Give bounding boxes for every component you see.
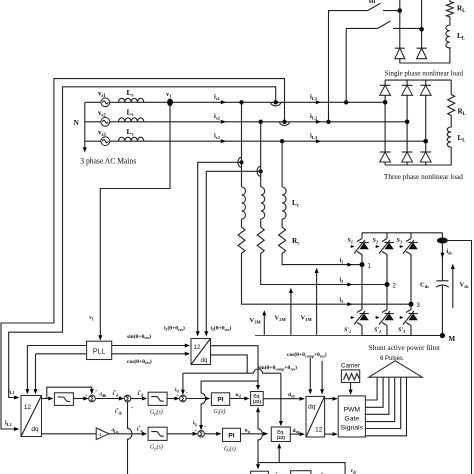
carrier block xyxy=(341,362,360,382)
svg-text:Gp(s): Gp(s) xyxy=(150,444,163,451)
wire 1ph bridge leg A xyxy=(398,0,403,48)
junction line2-branch2 xyxy=(259,120,263,124)
arrow idc xyxy=(440,249,452,258)
label 3 phase AC Mains xyxy=(80,155,136,165)
op-block PLL xyxy=(87,341,112,359)
inductor LL 3ph xyxy=(447,118,465,147)
svg-text:i3: i3 xyxy=(340,297,344,304)
svg-text:Signals: Signals xyxy=(341,425,364,432)
inductor LL 1ph xyxy=(446,19,465,48)
svg-text:Eq.: Eq. xyxy=(253,394,260,399)
svg-text:iL1: iL1 xyxy=(8,389,15,396)
svg-text:Shunt active power filter: Shunt active power filter xyxy=(369,344,441,352)
node 3 xyxy=(409,302,421,309)
label -idh xyxy=(99,392,107,398)
wire i2 measure xyxy=(204,171,260,336)
transistor S2 xyxy=(373,238,394,255)
block Eq22 xyxy=(251,392,264,406)
inductor Lc2 xyxy=(261,187,265,219)
arrow Vdc xyxy=(451,264,469,308)
inductor Lc3 xyxy=(282,187,300,219)
wire dq12 to PWM d xyxy=(325,397,338,401)
svg-text:(22): (22) xyxy=(253,399,262,404)
diode D5 xyxy=(420,85,431,95)
svg-text:Three phase nonlinear load: Three phase nonlinear load xyxy=(384,173,463,181)
label single phase nonlinear load xyxy=(385,70,464,78)
svg-text:S1: S1 xyxy=(348,238,353,245)
svg-text:S′3: S′3 xyxy=(398,328,405,335)
wire 3ph bridge column 2 xyxy=(405,80,410,165)
wire SAPF column 1 xyxy=(361,233,363,336)
summer 3 xyxy=(176,393,186,402)
filter block Gp1 xyxy=(148,392,167,416)
summer 1 xyxy=(85,389,98,402)
svg-text:+: + xyxy=(194,429,197,435)
filter block LPF xyxy=(54,393,73,406)
summer 2 xyxy=(124,395,131,402)
wire Eq23 to dq12 xyxy=(290,428,305,436)
svg-text:12: 12 xyxy=(24,404,32,411)
wire sin comp vertical xyxy=(320,361,324,395)
source vs3 xyxy=(98,129,110,146)
filter block Gp2 xyxy=(148,427,167,451)
wire cos comp vertical xyxy=(308,358,312,395)
svg-text:6 Pulses: 6 Pulses xyxy=(380,355,403,362)
wire v1 sense to PLL xyxy=(89,102,170,340)
transform block dq/12 xyxy=(306,396,325,437)
wire pulse 2 xyxy=(365,377,383,407)
arrow V3M xyxy=(250,310,267,335)
svg-text:PLL: PLL xyxy=(93,349,106,356)
wire pulse 6 xyxy=(365,377,406,436)
switch S2 xyxy=(378,21,422,28)
wire phase line 1 xyxy=(85,101,385,103)
pulse fan roof xyxy=(369,355,423,377)
svg-text:+: + xyxy=(275,471,278,474)
wire phase line 3 xyxy=(85,140,426,142)
wire 1ph bridge leg B xyxy=(419,0,424,48)
transistor S1 xyxy=(348,238,369,255)
wire id out to Eq22 xyxy=(211,346,261,391)
wire phase line 2 xyxy=(85,121,407,123)
arrow i1 xyxy=(340,258,353,267)
svg-text:Gp(s): Gp(s) xyxy=(150,409,163,416)
wire dq output q row xyxy=(42,433,97,435)
wire 3ph bridge column 3 xyxy=(423,80,428,165)
svg-text:-: - xyxy=(204,425,206,431)
diode D7 xyxy=(402,152,413,162)
wire pulse 1 xyxy=(365,377,377,400)
arrow V1M xyxy=(301,268,319,335)
wire 3ph bridge column 1 xyxy=(383,80,388,165)
wire Eq23 bottom vdc xyxy=(277,443,281,462)
wire summer1 to summer2 xyxy=(95,390,124,401)
svg-text:-1: -1 xyxy=(98,432,103,437)
svg-text:Gate: Gate xyxy=(344,416,359,423)
switch S1 xyxy=(368,3,400,10)
transistor S3 xyxy=(397,238,418,255)
wire Gp1 to summer3 xyxy=(167,397,180,401)
svg-text:12: 12 xyxy=(315,427,323,434)
svg-text:+: + xyxy=(176,393,179,399)
svg-text:S′2: S′2 xyxy=(374,328,381,335)
svg-text:Eq.: Eq. xyxy=(277,430,284,435)
arrow iL2 xyxy=(310,113,321,124)
wire SAPF bottom rail xyxy=(362,335,442,337)
svg-text:3 phase AC Mains: 3 phase AC Mains xyxy=(80,155,136,165)
inductor Ls2 xyxy=(119,108,144,122)
svg-text:Carrier: Carrier xyxy=(341,362,360,369)
wire SAPF column 2 xyxy=(386,233,388,336)
wire H1 sin comp line xyxy=(175,369,281,396)
wire into Eq23 top xyxy=(279,373,283,426)
block PWM gate signals xyxy=(338,396,365,437)
diode D8 xyxy=(420,152,431,162)
wire cos theta line xyxy=(34,352,191,395)
svg-text:iL2: iL2 xyxy=(5,421,12,428)
transform block 12/dq lower xyxy=(21,396,42,437)
block Eq23 xyxy=(271,427,290,442)
svg-text:M: M xyxy=(449,335,456,343)
wire switch S1 feed xyxy=(329,11,368,122)
source vs2 xyxy=(98,109,110,126)
arrow i2 xyxy=(340,278,353,287)
arrow i3 xyxy=(340,297,353,306)
junction line1-switch2 xyxy=(344,100,348,104)
label three phase nonlinear load xyxy=(384,173,463,181)
diode D1 xyxy=(395,48,405,59)
neutral bus N xyxy=(74,102,87,152)
label i1 theta xyxy=(164,325,185,332)
transistor S'1 xyxy=(344,310,369,335)
wire Eq22 to dq12 xyxy=(263,392,305,401)
svg-text:dq: dq xyxy=(308,404,316,411)
wire dq12 to PWM q xyxy=(325,432,338,436)
wire iL1 sense route xyxy=(8,87,281,400)
svg-text:Single phase nonlinear load: Single phase nonlinear load xyxy=(385,70,464,78)
wire PI1 to Eq22 xyxy=(230,392,250,401)
junction line1-branch1 xyxy=(239,100,243,104)
svg-text:+: + xyxy=(131,405,134,411)
svg-text:idc: idc xyxy=(447,249,453,256)
wire summer3 to PI1 xyxy=(186,397,210,401)
transistor S'3 xyxy=(398,310,418,335)
wire carrier to PWM xyxy=(349,383,353,395)
arrow iL1 xyxy=(310,94,321,105)
wire 1ph bottom rail xyxy=(400,47,450,63)
PI controller 2 xyxy=(223,428,241,453)
wire M reference baseline xyxy=(255,335,362,337)
svg-text:(23): (23) xyxy=(277,435,286,440)
svg-text:S3: S3 xyxy=(397,238,402,245)
wire coupling branch 1 xyxy=(238,102,411,304)
wire coupling branch 3 xyxy=(279,141,362,264)
diode D2 xyxy=(417,48,427,59)
label sin comp xyxy=(258,364,297,371)
resistor RL 3ph xyxy=(448,95,466,119)
svg-text:S2: S2 xyxy=(373,238,378,245)
label cos output xyxy=(127,358,152,365)
resistor RL 1ph xyxy=(446,0,465,19)
diode D4 xyxy=(402,85,413,95)
wire i1 measure xyxy=(196,162,242,336)
node DC plus xyxy=(437,238,472,474)
wire 3ph bridge top rail xyxy=(385,80,451,94)
svg-text:i2: i2 xyxy=(340,278,344,285)
wire pulse 3 xyxy=(365,377,389,414)
node 2 xyxy=(385,282,397,290)
svg-text:PI: PI xyxy=(217,397,223,404)
block dc filter cut xyxy=(291,471,311,474)
inductor Ls1 xyxy=(119,88,144,102)
transform block 12/dq upper xyxy=(191,339,211,365)
label plus mark xyxy=(275,471,324,474)
wire 3ph bridge bottom rail xyxy=(385,147,451,165)
svg-text:-: - xyxy=(186,390,188,396)
svg-text:+: + xyxy=(119,395,122,401)
wire LPF to summer1 xyxy=(73,397,88,401)
svg-text:PI: PI xyxy=(228,432,234,439)
wire summer2 to Gp1 xyxy=(131,390,147,401)
arrow V2M xyxy=(275,288,293,335)
wire dq output to LPF xyxy=(42,397,54,401)
wire pulse 4 xyxy=(365,377,394,421)
inductor Ls3 xyxy=(119,127,144,141)
capacitor Cdc xyxy=(420,281,449,289)
wire pulse 5 xyxy=(365,377,400,428)
wire iq out xyxy=(211,355,248,373)
label shunt active power filter xyxy=(369,344,441,352)
label -iLq xyxy=(111,428,120,434)
wire feedback over LPF xyxy=(47,387,94,398)
wire iq branch to summer4 xyxy=(193,381,258,430)
svg-text:dq: dq xyxy=(201,358,208,364)
junction line2-switch1 xyxy=(326,120,330,124)
node v1 xyxy=(166,91,173,106)
block dc regulator cut xyxy=(251,471,269,474)
arrow is3 xyxy=(214,133,226,144)
label cut-off SH xyxy=(369,0,376,5)
wire DC bus xyxy=(441,233,443,336)
svg-text:dq: dq xyxy=(31,426,39,433)
label i2 theta xyxy=(211,325,232,332)
wire SAPF top rail xyxy=(362,232,442,234)
wire SAPF column 3 xyxy=(410,233,412,336)
svg-text:PWM: PWM xyxy=(343,407,360,414)
wire idc star xyxy=(115,402,134,474)
PI controller 1 xyxy=(211,393,229,416)
diode D3 xyxy=(380,85,391,95)
node M xyxy=(440,333,456,343)
svg-text:S′1: S′1 xyxy=(344,328,351,335)
arrow is2 xyxy=(214,113,226,124)
diode D6 xyxy=(380,152,391,162)
svg-text:Gi(s): Gi(s) xyxy=(224,446,236,453)
arrow is1 xyxy=(214,94,226,105)
label Rc xyxy=(292,237,300,247)
wire vdc feedback xyxy=(258,463,357,474)
wire summer4 to PI2 xyxy=(204,432,221,436)
wire Gp2 to summer4 xyxy=(167,432,198,436)
transistor S'2 xyxy=(374,310,394,335)
svg-text:+: + xyxy=(95,389,98,395)
svg-text:12: 12 xyxy=(194,345,201,351)
wire sin theta line xyxy=(25,344,190,395)
label sin output xyxy=(127,333,151,340)
wire switch S2 feed xyxy=(346,28,378,102)
wire iL2 sense route xyxy=(1,79,290,431)
inductor Lc1 xyxy=(242,187,246,219)
source vs1 xyxy=(98,90,110,107)
svg-text:θH: θH xyxy=(369,0,376,5)
node 1 xyxy=(360,262,372,269)
wire PI2 to Eq23 xyxy=(241,428,269,436)
wire Eq22 bottom vdc xyxy=(256,407,263,470)
svg-text:Gi(s): Gi(s) xyxy=(214,408,226,415)
gain -1 xyxy=(96,428,109,440)
summer 4 xyxy=(194,429,204,438)
svg-text:N: N xyxy=(74,118,80,127)
label cos comp xyxy=(287,351,327,358)
wire gain to Gp2 xyxy=(109,426,147,436)
arrow iL3 xyxy=(310,133,321,144)
wire coupling branch 2 xyxy=(257,122,387,285)
junction line3-branch3 xyxy=(280,139,284,143)
svg-text:i1: i1 xyxy=(340,258,344,265)
